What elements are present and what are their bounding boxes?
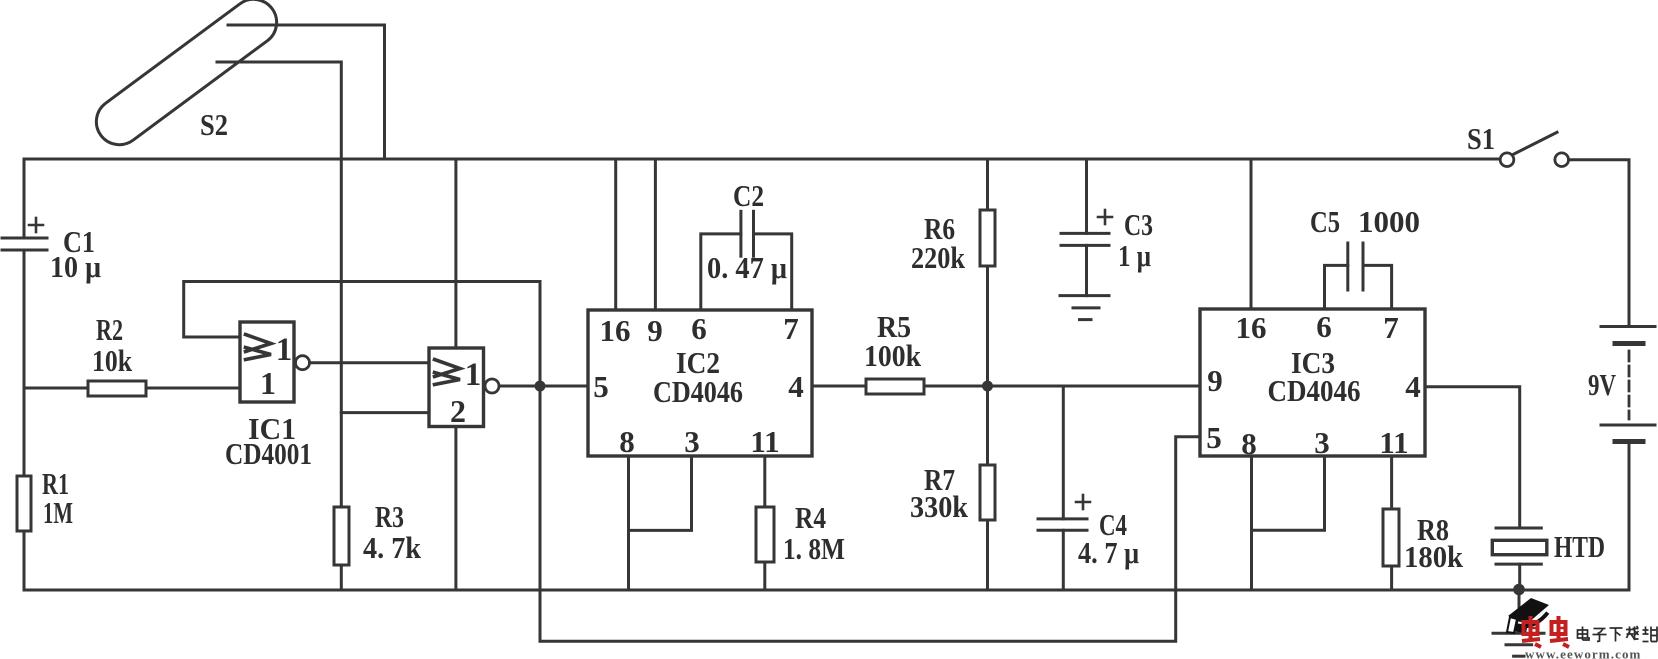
wire left rail lower	[23, 531, 26, 590]
watermark site name glyphs	[1578, 626, 1658, 642]
svg-text:330k: 330k	[910, 489, 969, 524]
svg-text:S2: S2	[200, 107, 228, 142]
svg-text:CD4046: CD4046	[653, 374, 743, 409]
svg-text:S1: S1	[1467, 121, 1495, 156]
switch S1	[1467, 121, 1568, 167]
resistor R7 330k	[910, 386, 995, 590]
resistor R6 220k	[911, 159, 995, 386]
svg-text:1: 1	[260, 365, 276, 401]
svg-text:1M: 1M	[43, 495, 73, 530]
svg-text:7: 7	[1383, 310, 1399, 345]
svg-text:16: 16	[600, 313, 631, 348]
svg-text:4: 4	[788, 369, 804, 404]
wire IC3 pin16	[1250, 159, 1253, 309]
svg-text:www.eeworm.com: www.eeworm.com	[1525, 647, 1641, 659]
svg-text:9V: 9V	[1588, 367, 1616, 402]
svg-text:R4: R4	[795, 500, 826, 535]
wire S1 to battery	[1569, 160, 1629, 327]
svg-text:6: 6	[691, 311, 707, 346]
svg-text:100k: 100k	[864, 338, 922, 373]
ground below C3	[1060, 296, 1109, 320]
resistor R3 4.7k	[334, 499, 422, 565]
wire battery bottom to bus	[1628, 442, 1631, 591]
gate IC1 unit 1 (NOR)	[225, 322, 312, 471]
gate IC1 unit 2 (NOR)	[429, 348, 499, 429]
svg-text:1000: 1000	[1358, 204, 1420, 239]
svg-text:9: 9	[647, 313, 663, 348]
svg-text:1 μ: 1 μ	[1118, 238, 1151, 273]
wire IC3 pin3	[1252, 456, 1325, 530]
wire R3 bottom	[340, 565, 343, 590]
svg-text:1: 1	[276, 332, 293, 368]
svg-text:4. 7k: 4. 7k	[363, 530, 422, 565]
capacitor C1 10u	[2, 218, 101, 284]
wire gate2 top pin to bus	[454, 159, 457, 348]
wire feedback loop gate1	[184, 282, 540, 387]
resistor R8 180k	[1383, 456, 1464, 590]
wire gate2 output to IC2 pin5	[499, 385, 588, 388]
svg-text:C5: C5	[1310, 204, 1340, 239]
svg-text:R3: R3	[375, 499, 404, 534]
wire S2 lower contact down to R3	[217, 62, 341, 507]
node R5 R6 R7 junction	[982, 381, 993, 392]
capacitor C2 0.47u	[701, 178, 792, 310]
resistor R2 10k	[88, 312, 146, 396]
resistor R5 100k	[812, 309, 988, 394]
svg-text:7: 7	[783, 311, 799, 346]
svg-text:8: 8	[619, 424, 635, 459]
svg-text:5: 5	[1206, 420, 1222, 455]
svg-text:3: 3	[1314, 425, 1330, 460]
svg-text:9: 9	[1207, 363, 1223, 398]
resistor R1 1M	[17, 466, 73, 531]
node gate2 output junction	[535, 381, 546, 392]
watermark red characters	[1522, 616, 1569, 647]
svg-text:10 μ: 10 μ	[50, 249, 101, 284]
wire IC3 pin8	[1250, 456, 1253, 590]
IC3 CD4046 box	[1200, 309, 1425, 461]
wire IC3 pin4 to HTD	[1425, 387, 1520, 528]
switch S2 tilt switch	[87, 0, 286, 154]
wire R2 input row	[24, 387, 240, 390]
svg-text:11: 11	[1379, 425, 1408, 460]
wire lower feedback bus to IC3 pin5	[540, 386, 1200, 641]
ground bottom right	[1493, 590, 1544, 656]
svg-text:C3: C3	[1124, 207, 1153, 242]
svg-text:11: 11	[750, 424, 779, 459]
svg-text:4: 4	[1405, 369, 1421, 404]
node HTD ground junction	[1513, 584, 1525, 596]
wire bottom ground bus	[24, 589, 1629, 592]
svg-text:5: 5	[593, 369, 609, 404]
svg-text:180k: 180k	[1404, 539, 1464, 574]
wire node to IC3 pin9	[988, 385, 1201, 388]
wire IC2 pin8	[627, 456, 630, 590]
svg-text:HTD: HTD	[1554, 529, 1605, 564]
wire gate1 output	[310, 361, 430, 364]
svg-text:6: 6	[1316, 309, 1332, 344]
watermark logo graduation cap	[1507, 598, 1549, 633]
svg-text:220k: 220k	[911, 240, 966, 275]
wire left rail mid	[23, 250, 26, 476]
battery 9V	[1588, 327, 1655, 442]
wire top supply bus	[24, 158, 1500, 161]
svg-text:CD4046: CD4046	[1268, 373, 1361, 408]
IC2 CD4046 box	[588, 310, 812, 459]
capacitor C3 1u	[1061, 159, 1153, 296]
wire gate2 lower input	[341, 411, 429, 414]
wire gate2 bottom pin	[454, 427, 457, 591]
wire IC2 pin16	[614, 159, 617, 310]
svg-text:8: 8	[1241, 426, 1257, 461]
resistor R4 1.8M	[756, 456, 845, 590]
svg-text:R2: R2	[96, 312, 123, 347]
svg-text:16: 16	[1236, 310, 1267, 345]
svg-text:2: 2	[450, 393, 466, 429]
svg-text:3: 3	[684, 424, 700, 459]
svg-text:0. 47 μ: 0. 47 μ	[707, 250, 787, 285]
svg-text:1. 8M: 1. 8M	[783, 531, 845, 566]
svg-text:4. 7 μ: 4. 7 μ	[1078, 535, 1139, 570]
wire left rail upper	[23, 159, 26, 238]
capacitor C5 1000	[1310, 204, 1420, 309]
svg-text:C2: C2	[733, 178, 764, 213]
svg-text:CD4001: CD4001	[225, 436, 312, 471]
svg-text:1: 1	[465, 357, 482, 393]
capacitor C4 4.7u	[1038, 386, 1139, 590]
svg-text:10k: 10k	[92, 343, 133, 378]
wire IC2 pin3	[629, 456, 692, 530]
wire S2 upper contact to bus	[228, 25, 385, 159]
wire IC2 pin9	[654, 159, 657, 310]
buzzer HTD piezo	[1492, 528, 1605, 590]
